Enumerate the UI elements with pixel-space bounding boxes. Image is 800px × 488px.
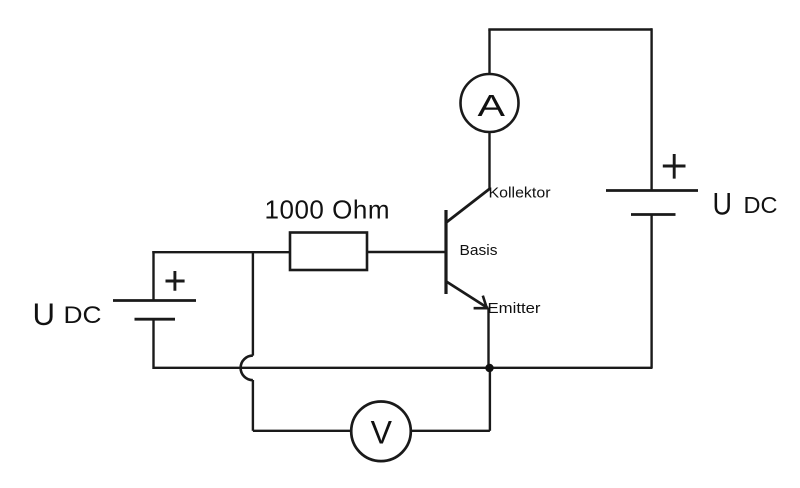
ammeter A (circle) — [461, 74, 519, 132]
wire: emitter vertical to node — [487, 308, 489, 368]
plus sign (right battery) — [663, 154, 686, 179]
transistor: base bar — [444, 210, 447, 294]
wire: base supply horizontal — [152, 251, 290, 253]
svg-text:V: V — [371, 414, 393, 450]
svg-text:U: U — [33, 296, 56, 332]
wire hop (crossover arc) — [241, 356, 253, 381]
voltmeter V (circle) — [351, 402, 411, 462]
wire: collector vertical to ammeter — [488, 133, 490, 191]
wire: bottom rail — [154, 367, 653, 369]
svg-text:1000 Ohm: 1000 Ohm — [265, 195, 390, 225]
transistor: emitter diagonal — [446, 281, 488, 308]
battery U_DC left: plus plate — [113, 299, 196, 302]
resistor R 1000 Ohm (body) — [290, 233, 367, 271]
wire: resistor to base — [367, 251, 446, 253]
battery U_DC left: minus plate — [135, 318, 176, 321]
transistor: emitter arrow barbs — [474, 296, 489, 309]
svg-text:Basis: Basis — [460, 242, 498, 259]
wire: right battery minus to bottom rail — [650, 215, 652, 369]
svg-text:U: U — [713, 186, 733, 222]
node: emitter junction dot — [485, 364, 493, 372]
svg-text:Emitter: Emitter — [488, 300, 541, 317]
svg-text:Kollektor: Kollektor — [489, 185, 551, 202]
wire: ammeter top lead — [488, 30, 490, 75]
transistor: collector diagonal — [446, 189, 491, 224]
plus sign (left battery) — [166, 271, 185, 291]
svg-text:DC: DC — [744, 192, 778, 218]
svg-text:A: A — [478, 88, 506, 123]
wire: left battery minus lead — [152, 319, 154, 369]
battery U_DC right: plus plate — [606, 189, 698, 192]
wire: node to voltmeter riser — [489, 368, 491, 431]
wire: upper left vertical (above hop) — [252, 252, 254, 356]
battery U_DC right: minus plate — [631, 213, 676, 216]
wire: voltmeter left lead — [253, 430, 351, 432]
wire: lower left vertical (below hop) — [252, 380, 254, 431]
wire: voltmeter right lead — [412, 430, 490, 432]
svg-text:DC: DC — [64, 302, 102, 329]
wire: right drop to battery plus — [650, 28, 652, 190]
wire: top horizontal run — [488, 28, 652, 30]
wire: left battery plus lead — [152, 251, 154, 301]
